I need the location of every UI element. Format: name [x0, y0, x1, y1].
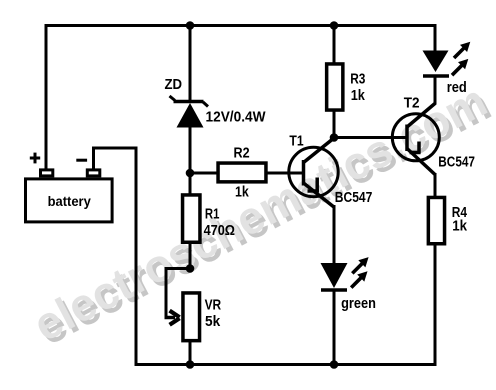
resistor R1 [183, 195, 200, 242]
node green LED bottom rail [330, 360, 339, 369]
node B R1 VR wiper [186, 264, 195, 273]
wire zener branch upper [189, 25, 192, 100]
svg-text:T2: T2 [404, 95, 420, 111]
svg-text:red: red [447, 80, 467, 96]
wiper arrow of VR [165, 311, 180, 325]
svg-text:R2: R2 [234, 146, 250, 162]
wire top positive rail [45, 24, 437, 27]
svg-text:1k: 1k [351, 88, 366, 104]
light arrows red LED [452, 42, 470, 75]
svg-text:green: green [341, 296, 376, 312]
transistor T2 [392, 103, 439, 175]
wire battery minus loop [94, 148, 137, 366]
svg-text:BC547: BC547 [335, 190, 373, 206]
wire R1 top [189, 173, 192, 196]
transistor T1 [289, 138, 338, 208]
light arrows green LED [351, 257, 368, 288]
wire bottom rail [135, 363, 437, 366]
battery [26, 170, 113, 222]
svg-text:5k: 5k [205, 314, 221, 330]
svg-text:T1: T1 [289, 133, 303, 149]
svg-text:12V/0.4W: 12V/0.4W [206, 109, 266, 125]
resistor R2 [218, 163, 266, 182]
node A zener R1 R2 [186, 169, 195, 178]
svg-text:battery: battery [48, 194, 92, 209]
wire battery plus drop [45, 24, 48, 169]
wire VR wiper connection [166, 269, 191, 318]
resistor R3 [327, 64, 343, 110]
wire T1 emitter to green LED [333, 205, 336, 264]
svg-text:ZD: ZD [165, 77, 183, 93]
svg-text:1k: 1k [235, 185, 250, 201]
label minus [76, 159, 87, 162]
wire R3 top [333, 25, 336, 64]
svg-text:BC547: BC547 [438, 154, 475, 170]
wire R1 bottom to node B [189, 242, 192, 270]
wire R4 bottom [434, 245, 437, 366]
node C R3 T1 T2 [330, 133, 339, 142]
wire T2 emitter to R4 [434, 173, 437, 198]
svg-text:470Ω: 470Ω [204, 223, 236, 239]
wire top rail to red LED [434, 24, 437, 52]
node top zener junction [186, 21, 195, 30]
label plus [30, 153, 40, 164]
svg-text:VR: VR [205, 298, 222, 314]
watermark [29, 78, 496, 355]
svg-text:R3: R3 [350, 72, 365, 88]
node top R3 junction [330, 21, 339, 30]
LED red [423, 51, 450, 105]
potentiometer VR [183, 293, 200, 341]
wire R3 bottom to node C [333, 111, 336, 139]
zener diode ZD [170, 96, 209, 128]
wire node A to R2 [189, 172, 218, 175]
svg-text:R1: R1 [205, 207, 220, 223]
node VR bottom rail [186, 360, 195, 369]
resistor R4 [428, 197, 444, 243]
wire VR bottom [189, 340, 192, 365]
LED green [321, 263, 348, 366]
svg-text:1k: 1k [452, 218, 468, 234]
wire node C to T2 base [333, 136, 407, 139]
wire R2 to T1 base [267, 172, 304, 175]
wire zener to node A [189, 126, 192, 175]
